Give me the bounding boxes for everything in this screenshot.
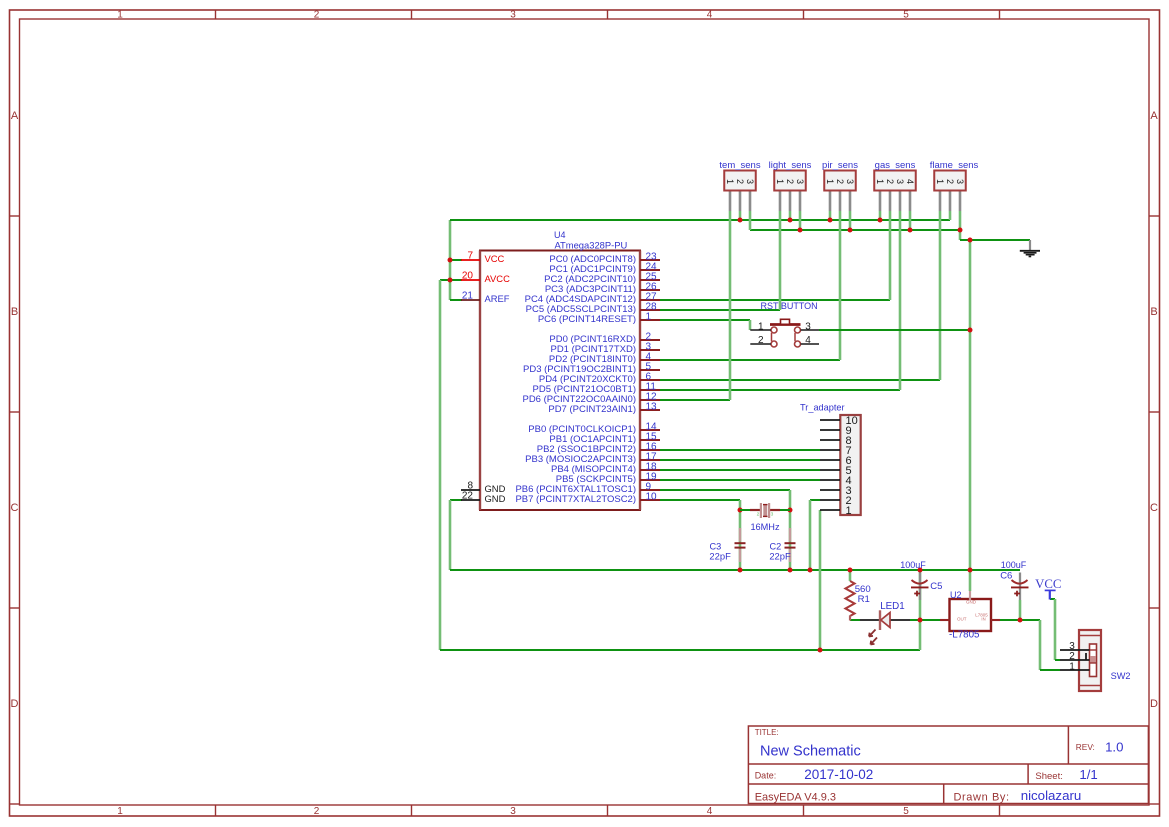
svg-text:D: D (11, 698, 19, 710)
junction (968, 238, 973, 243)
svg-text:flame_sens: flame_sens (930, 160, 979, 171)
ic U4 pin 19 PB5 (640, 479, 660, 481)
svg-text:7: 7 (467, 251, 473, 262)
switch SW2 pin 2 (1060, 659, 1090, 661)
wire (1020, 600, 1060, 670)
svg-text:2: 2 (1069, 651, 1075, 662)
connector tem_sens box (724, 171, 756, 191)
junction (788, 218, 793, 223)
junction (1018, 618, 1023, 623)
wire (660, 459, 820, 461)
svg-text:1: 1 (117, 806, 123, 817)
svg-text:2: 2 (314, 10, 320, 21)
junction (788, 568, 793, 573)
frame row labels right (1150, 110, 1158, 710)
connector flame_sens pin 2 (949, 192, 952, 212)
wire (959, 211, 962, 230)
regulator U2 box (950, 599, 992, 631)
svg-text:1: 1 (725, 179, 735, 184)
connector Tr_adapter pin 5 (820, 469, 840, 471)
connector pir_sens box (824, 171, 856, 191)
ic U4 pin 18 PB4 (640, 469, 660, 471)
svg-text:Tr_adapter: Tr_adapter (800, 403, 845, 413)
connector tem_sens pin 1 (729, 192, 732, 212)
ic U4 pin 12 PD6 (640, 399, 660, 401)
svg-text:1: 1 (646, 312, 652, 323)
ic U4 pin 5 PD3 (640, 369, 660, 371)
connector pir_sens pin 1 (829, 192, 832, 212)
regulator U2 pin IN (991, 619, 1000, 621)
connector gas_sens pin 3 (899, 192, 902, 212)
junction (848, 568, 853, 573)
wire (910, 619, 920, 621)
junction (968, 568, 973, 573)
svg-text:4: 4 (805, 335, 811, 346)
push button RST BUTTON body (770, 319, 801, 347)
wire (799, 211, 802, 230)
connector flame_sens pin 1 (939, 192, 942, 212)
svg-text:3: 3 (845, 179, 855, 184)
junction (808, 568, 813, 573)
svg-text:3: 3 (510, 10, 516, 21)
wire (919, 570, 922, 650)
svg-text:16MHz: 16MHz (750, 522, 780, 532)
wire (660, 211, 730, 400)
svg-text:22: 22 (462, 491, 474, 502)
push button pin 2 (750, 343, 771, 345)
junction (908, 228, 913, 233)
svg-text:1: 1 (117, 10, 123, 21)
wire (660, 211, 900, 390)
wire (660, 320, 750, 330)
wire (960, 230, 1030, 240)
capacitor C6 (1019, 573, 1021, 601)
junction (828, 218, 833, 223)
svg-text:100uF: 100uF (900, 560, 926, 570)
svg-text:4: 4 (707, 806, 713, 817)
ic U4 pin 9 PB6 (640, 489, 660, 491)
junction (818, 648, 823, 653)
led LED1 (860, 619, 879, 621)
svg-text:2: 2 (885, 179, 895, 184)
ic U4 pin 22 GND (461, 499, 480, 501)
svg-text:3: 3 (795, 179, 805, 184)
capacitor C3 (739, 528, 741, 542)
svg-text:-L7805: -L7805 (949, 629, 980, 640)
svg-text:2: 2 (835, 179, 845, 184)
wire (879, 211, 882, 220)
connector Tr_adapter pin 6 (820, 459, 840, 461)
svg-text:New Schematic: New Schematic (760, 744, 861, 760)
junction (958, 228, 963, 233)
svg-text:Drawn By:: Drawn By: (954, 792, 1010, 804)
svg-text:1.0: 1.0 (1105, 740, 1123, 755)
connector Tr_adapter pin 8 (820, 439, 840, 441)
switch SW2 pin 1 (1060, 669, 1090, 671)
junction (918, 618, 923, 623)
connector Tr_adapter pin 2 (820, 499, 840, 501)
wire (660, 490, 790, 570)
connector flame_sens box (934, 171, 966, 191)
svg-text:A: A (11, 110, 19, 122)
connector pir_sens pin 2 (839, 192, 842, 212)
svg-text:22pF: 22pF (709, 551, 731, 562)
wire (660, 211, 940, 380)
svg-text:3: 3 (745, 179, 755, 184)
svg-text:1/1: 1/1 (1079, 767, 1097, 782)
connector light_sens pin 1 (779, 192, 782, 212)
svg-text:LED1: LED1 (880, 601, 905, 612)
wire (819, 329, 970, 331)
junction (788, 508, 793, 513)
svg-text:1: 1 (875, 179, 885, 184)
ic U4 pin 7 VCC (461, 259, 480, 261)
svg-text:A: A (1150, 110, 1158, 122)
connector Tr_adapter pin 10 (820, 419, 840, 421)
ic U4 pin 23 PC0 (640, 259, 660, 261)
svg-text:5: 5 (903, 806, 909, 817)
svg-text:EasyEDA V4.9.3: EasyEDA V4.9.3 (755, 792, 836, 804)
svg-text:C: C (11, 502, 19, 514)
frame row ticks (10, 216, 1160, 804)
wire (660, 469, 820, 471)
frame row labels left (11, 110, 19, 710)
ic U4 box (480, 251, 640, 511)
ic U4 pin 1 PC6 (640, 319, 660, 321)
svg-text:GND: GND (966, 600, 977, 605)
connector Tr_adapter pin 3 (820, 489, 840, 491)
svg-text:4: 4 (905, 179, 915, 184)
wire (849, 570, 852, 581)
svg-text:IN: IN (981, 616, 985, 621)
wire (450, 279, 462, 281)
ic U4 pin 13 PD7 (640, 409, 660, 411)
connector Tr_adapter pin 4 (820, 479, 840, 481)
svg-text:PD7 (PCINT23AIN1): PD7 (PCINT23AIN1) (548, 404, 636, 415)
wire (920, 619, 940, 621)
svg-text:1: 1 (825, 179, 835, 184)
wire (969, 570, 972, 591)
switch SW2 body (1079, 630, 1101, 691)
connector Tr_adapter pin 9 (820, 429, 840, 431)
svg-text:2: 2 (945, 179, 955, 184)
wire (789, 211, 792, 220)
svg-text:21: 21 (462, 291, 474, 302)
svg-text:VCC: VCC (485, 253, 505, 264)
wire (660, 211, 780, 310)
svg-text:3: 3 (805, 322, 811, 333)
frame column ticks (216, 10, 1000, 816)
ic U4 pin 24 PC1 (640, 269, 660, 271)
connector gas_sens box (874, 171, 916, 191)
junction (738, 218, 743, 223)
svg-text:100uF: 100uF (1001, 560, 1027, 570)
svg-text:22pF: 22pF (769, 551, 791, 562)
svg-text:1: 1 (758, 322, 764, 333)
svg-text:pir_sens: pir_sens (822, 160, 858, 171)
svg-text:VCC: VCC (1035, 577, 1061, 591)
capacitor C2 (789, 528, 791, 542)
svg-text:2: 2 (758, 335, 764, 346)
svg-text:R1: R1 (858, 594, 870, 605)
svg-text:3: 3 (510, 806, 516, 817)
svg-text:C6: C6 (1000, 570, 1012, 581)
wire (1050, 599, 1060, 660)
svg-text:3: 3 (955, 179, 965, 184)
frame column labels top (117, 10, 909, 21)
junction (878, 218, 883, 223)
wire (810, 500, 820, 570)
svg-text:4: 4 (707, 10, 713, 21)
crystal Y1 16MHz (740, 509, 751, 511)
regulator U2 pin GND (969, 591, 971, 600)
wire (450, 259, 462, 261)
ic U4 pin 6 PD4 (640, 379, 660, 381)
wire (829, 211, 832, 220)
junction (798, 228, 803, 233)
wire (750, 229, 960, 231)
ic U4 pin 21 AREF (461, 299, 480, 301)
frame column labels bottom (117, 806, 909, 817)
svg-text:nicolazaru: nicolazaru (1021, 788, 1082, 803)
svg-text:GND: GND (485, 493, 506, 504)
switch SW2 pin 3 (1060, 649, 1090, 651)
wire (849, 211, 852, 230)
ic U4 pin 8 GND (461, 489, 480, 491)
connector Tr_adapter box (840, 415, 860, 515)
svg-text:13: 13 (646, 402, 658, 413)
wire (660, 211, 890, 300)
svg-text:SW2: SW2 (1111, 671, 1131, 681)
ic U4 pin 16 PB2 (640, 449, 660, 451)
wire (909, 211, 912, 230)
junction (448, 258, 453, 263)
connector tem_sens pin 3 (749, 192, 752, 212)
title block (748, 726, 1148, 804)
ic U4 pin 15 PB1 (640, 439, 660, 441)
svg-text:U2: U2 (950, 590, 962, 600)
svg-text:B: B (11, 306, 18, 318)
wire (660, 479, 820, 481)
svg-text:OUT: OUT (957, 616, 967, 621)
svg-text:2: 2 (314, 806, 320, 817)
svg-text:2: 2 (785, 179, 795, 184)
ground (1029, 240, 1031, 250)
wire (660, 211, 840, 360)
wire (660, 500, 740, 570)
wire (1000, 619, 1020, 621)
junction (968, 328, 973, 333)
wire (850, 619, 860, 621)
resistor R1 (846, 581, 855, 616)
svg-text:AREF: AREF (485, 293, 510, 304)
junction (848, 228, 853, 233)
connector gas_sens pin 1 (879, 192, 882, 212)
connector Tr_adapter pin 1 (820, 509, 840, 511)
svg-text:3: 3 (895, 179, 905, 184)
ic U4 pin 14 PB0 (640, 429, 660, 431)
connector light_sens pin 3 (799, 192, 802, 212)
svg-text:1: 1 (935, 179, 945, 184)
push button pin 3 (801, 329, 819, 331)
push button pin 4 (801, 343, 819, 345)
ic U4 pin 10 PB7 (640, 499, 660, 501)
svg-text:TITLE:: TITLE: (755, 728, 779, 737)
ic U4 pin 2 PD0 (640, 339, 660, 341)
wire (450, 299, 462, 301)
wire (440, 280, 920, 650)
connector gas_sens pin 4 (909, 192, 912, 212)
svg-text:Sheet:: Sheet: (1035, 771, 1062, 782)
ic U4 pin 3 PD1 (640, 349, 660, 351)
wire (749, 211, 752, 230)
svg-text:B: B (1150, 306, 1157, 318)
wire (450, 500, 1020, 570)
ic U4 pin 27 PC4 (640, 299, 660, 301)
wire (819, 510, 822, 650)
push button pin 1 (750, 329, 771, 331)
svg-text:PB7 (PCINT7XTAL2TOSC2): PB7 (PCINT7XTAL2TOSC2) (515, 494, 636, 505)
ic U4 pin 28 PC5 (640, 309, 660, 311)
svg-text:C5: C5 (930, 581, 942, 592)
junction (918, 568, 923, 573)
svg-text:D: D (1150, 698, 1158, 710)
ic U4 pin 11 PD5 (640, 389, 660, 391)
svg-text:3: 3 (771, 512, 774, 518)
ic U4 pin 17 PB3 (640, 459, 660, 461)
svg-text:tem_sens: tem_sens (719, 160, 760, 171)
wire (739, 211, 742, 220)
svg-text:10: 10 (646, 492, 658, 503)
connector pir_sens pin 3 (849, 192, 852, 212)
connector gas_sens pin 2 (889, 192, 892, 212)
svg-text:20: 20 (462, 271, 474, 282)
svg-text:REV:: REV: (1076, 742, 1095, 752)
svg-text:AVCC: AVCC (485, 273, 511, 284)
connector Tr_adapter pin 7 (820, 449, 840, 451)
svg-text:2017-10-02: 2017-10-02 (804, 767, 873, 782)
capacitor C5 (919, 573, 921, 601)
connector flame_sens pin 3 (959, 192, 962, 212)
svg-text:5: 5 (903, 10, 909, 21)
ic U4 pin 26 PC3 (640, 289, 660, 291)
wire (660, 449, 820, 451)
connector tem_sens pin 2 (739, 192, 742, 212)
wire (969, 240, 972, 570)
svg-text:2: 2 (735, 179, 745, 184)
ic U4 pin 25 PC2 (640, 279, 660, 281)
svg-text:Date:: Date: (755, 770, 777, 780)
ic U4 pin 20 AVCC (461, 279, 480, 281)
svg-text:1: 1 (1069, 662, 1075, 673)
regulator U2 pin OUT (940, 619, 950, 621)
svg-text:RST BUTTON: RST BUTTON (761, 301, 818, 311)
svg-text:ATmega328P-PU: ATmega328P-PU (555, 239, 628, 250)
svg-text:C: C (1150, 502, 1158, 514)
svg-text:light_sens: light_sens (769, 160, 812, 171)
svg-text:1: 1 (846, 505, 852, 517)
svg-text:PC6 (PCINT14RESET): PC6 (PCINT14RESET) (538, 314, 636, 325)
connector light_sens box (774, 171, 806, 191)
wire (450, 220, 950, 300)
ic U4 pin 4 PD2 (640, 359, 660, 361)
wire (949, 211, 952, 220)
connector light_sens pin 2 (789, 192, 792, 212)
junction (738, 508, 743, 513)
svg-text:2: 2 (757, 512, 760, 518)
junction (448, 278, 453, 283)
junction (738, 568, 743, 573)
svg-text:1: 1 (775, 179, 785, 184)
svg-text:gas_sens: gas_sens (875, 160, 916, 171)
